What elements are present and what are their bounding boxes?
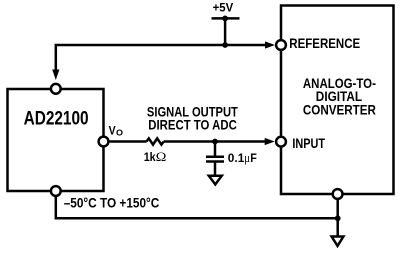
svg-text:Ω: Ω — [156, 150, 167, 164]
svg-text:INPUT: INPUT — [292, 136, 325, 151]
svg-text:CONVERTER: CONVERTER — [303, 102, 376, 117]
svg-text:0.1: 0.1 — [228, 151, 245, 165]
svg-text:+5V: +5V — [213, 3, 234, 15]
svg-text:V: V — [109, 124, 116, 138]
svg-text:O: O — [116, 128, 123, 138]
svg-text:REFERENCE: REFERENCE — [289, 36, 360, 51]
svg-text:DIRECT TO ADC: DIRECT TO ADC — [148, 118, 237, 133]
svg-text:1k: 1k — [144, 150, 156, 164]
svg-text:F: F — [250, 151, 257, 165]
svg-text:–50°C TO +150°C: –50°C TO +150°C — [64, 196, 160, 211]
svg-text:AD22100: AD22100 — [24, 109, 89, 130]
